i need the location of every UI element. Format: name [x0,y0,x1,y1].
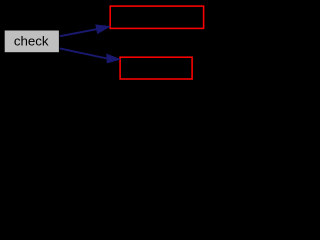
edge check->N2 [60,25,110,36]
node check [5,31,59,53]
doxygen caller-graph [0,0,208,88]
background [0,0,208,88]
svg-text:check: check [14,34,49,49]
node N2 (red, truncated) [110,6,203,28]
edge check->N3 [60,48,120,62]
node N3 (red, truncated) [120,57,192,79]
